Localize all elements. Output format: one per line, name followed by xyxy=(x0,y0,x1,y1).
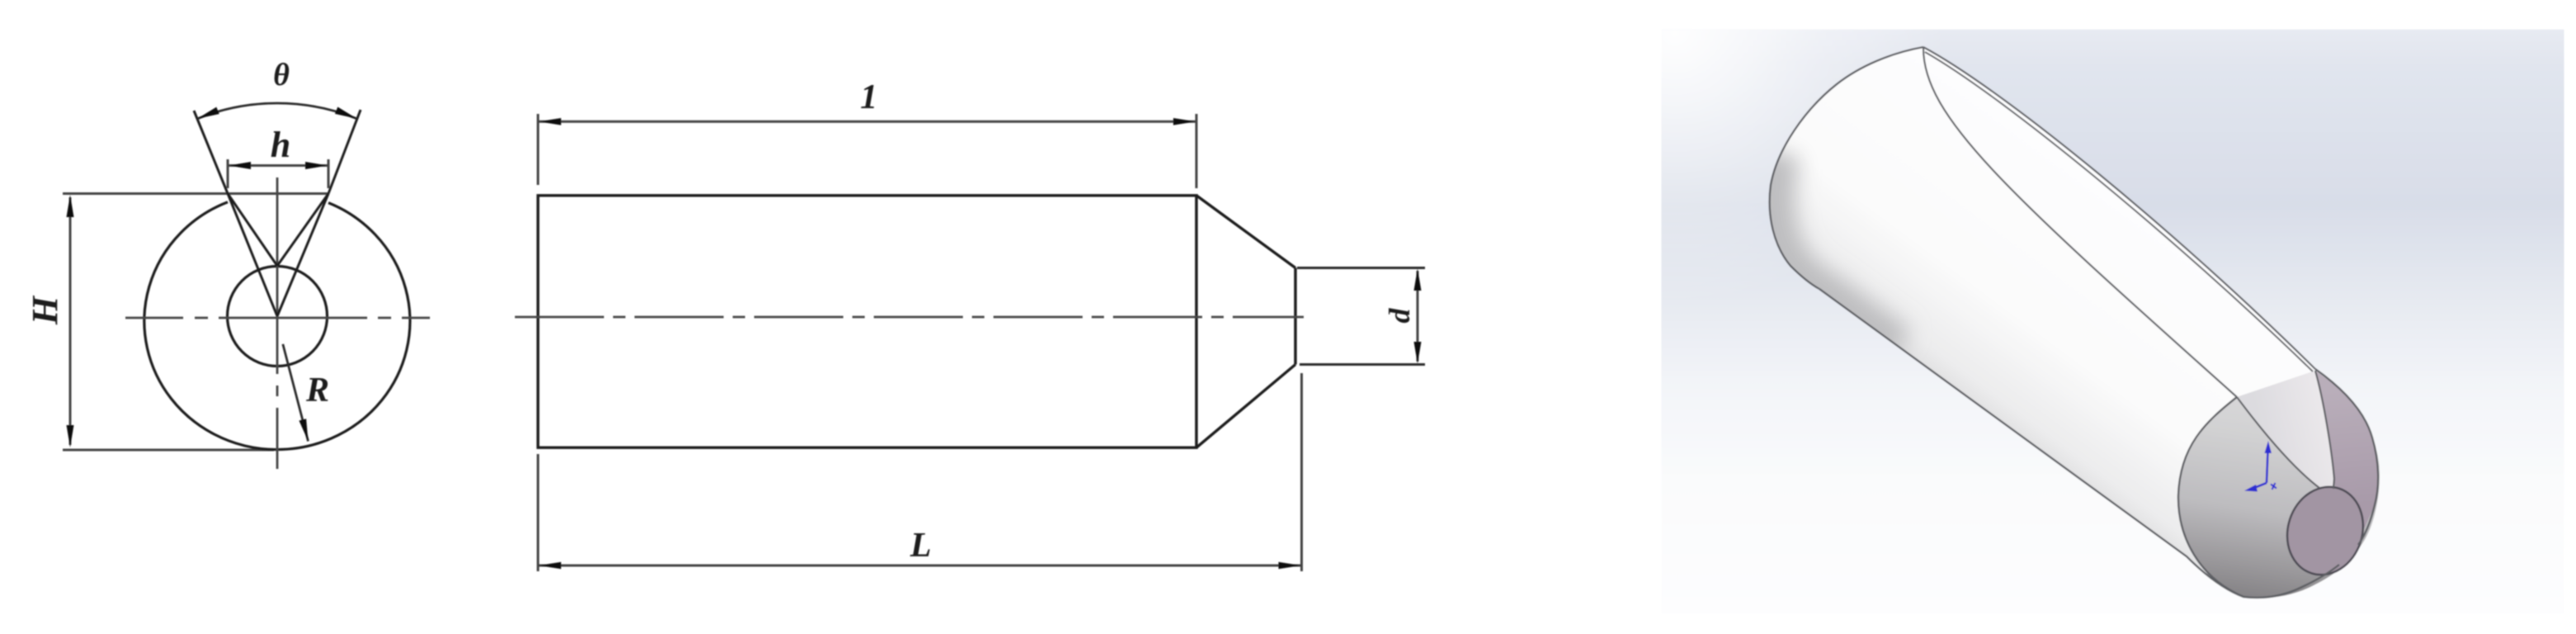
theta extension line left xyxy=(194,111,228,194)
3D body silhouette xyxy=(1770,47,2380,598)
theta dimension arc xyxy=(197,103,357,119)
longitudinal line L1 (top silhouette, groove far rim) xyxy=(1923,47,2315,369)
dim L arrow left xyxy=(539,562,561,570)
R leader line xyxy=(283,344,309,442)
origin star xyxy=(2271,483,2276,490)
outer circle (with top gap at V-groove) xyxy=(144,202,410,450)
h arrow right xyxy=(305,162,328,169)
longitudinal line L2 (groove far edge) xyxy=(1925,52,2313,371)
V-groove face right (deep, to center) xyxy=(277,194,328,317)
dim d arrow bottom xyxy=(1414,342,1422,364)
svg-text:θ: θ xyxy=(273,58,290,92)
cone face (gray) xyxy=(2178,371,2380,598)
dim 1 arrow left xyxy=(539,118,561,125)
svg-text:R: R xyxy=(305,371,329,409)
h arrow left xyxy=(229,162,251,169)
theta extension line right xyxy=(328,110,361,194)
background corner glow xyxy=(1662,30,2564,614)
svg-text:H: H xyxy=(25,295,65,325)
cap inner shading band xyxy=(1772,153,1898,348)
V-groove line right (shallow, to inner circle top) xyxy=(277,194,328,267)
R arrowhead xyxy=(299,419,308,441)
dim d arrow top xyxy=(1414,269,1422,291)
dim d extension top xyxy=(1297,267,1425,269)
wedge right edge xyxy=(2315,371,2334,489)
cone truncation face xyxy=(1294,268,1296,365)
H arrow top xyxy=(67,195,74,217)
groove wedge on cone xyxy=(2237,371,2334,489)
bottom silhouette xyxy=(1819,289,2339,598)
cone upper-right facet xyxy=(2315,371,2377,537)
theta arc arrow left xyxy=(197,107,219,119)
groove near rim line (cap to cone base) xyxy=(1923,47,2237,397)
cone top slant xyxy=(1196,196,1295,268)
dim 1 line xyxy=(538,121,1196,123)
dim L extension left xyxy=(537,454,540,571)
origin axis left arrow xyxy=(2254,483,2267,488)
tip face ellipse xyxy=(2276,477,2375,585)
inner circle xyxy=(228,267,328,367)
svg-text:L: L xyxy=(909,527,932,565)
cone base arc xyxy=(2178,397,2243,597)
body rectangle xyxy=(538,196,1196,447)
svg-text:1: 1 xyxy=(861,78,878,116)
svg-text:h: h xyxy=(271,125,290,165)
V-groove face left (deep, to center) xyxy=(228,194,277,317)
H dimension line xyxy=(69,197,72,445)
cone bottom slant xyxy=(1196,365,1295,448)
theta arc arrow right xyxy=(335,107,357,119)
right cone silhouette xyxy=(2315,369,2378,545)
background panel xyxy=(1662,30,2564,614)
H top extension line xyxy=(63,192,328,195)
dim d extension bottom xyxy=(1300,363,1425,366)
dim 1 arrow right xyxy=(1173,118,1196,125)
horizontal centerline xyxy=(125,317,430,319)
V-groove line left (shallow, to inner circle top) xyxy=(228,194,277,267)
h tick right xyxy=(328,159,330,188)
origin axis vertical arrow xyxy=(2244,441,2276,492)
dim 1 extension left xyxy=(537,114,540,185)
h dimension line xyxy=(228,164,328,167)
wedge left edge xyxy=(2237,397,2319,488)
H bottom extension line xyxy=(63,449,274,452)
dim d line xyxy=(1417,271,1419,362)
vertical centerline xyxy=(276,177,279,469)
dim L arrow right xyxy=(1279,562,1301,570)
dim L extension right xyxy=(1300,373,1303,571)
h tick left xyxy=(227,159,229,188)
cap arc outline xyxy=(1770,47,1923,289)
dim L line xyxy=(538,565,1302,567)
svg-text:d: d xyxy=(1383,308,1416,324)
side view centerline xyxy=(515,316,1304,319)
dim 1 extension right xyxy=(1196,114,1198,188)
H arrow bottom xyxy=(67,425,74,447)
